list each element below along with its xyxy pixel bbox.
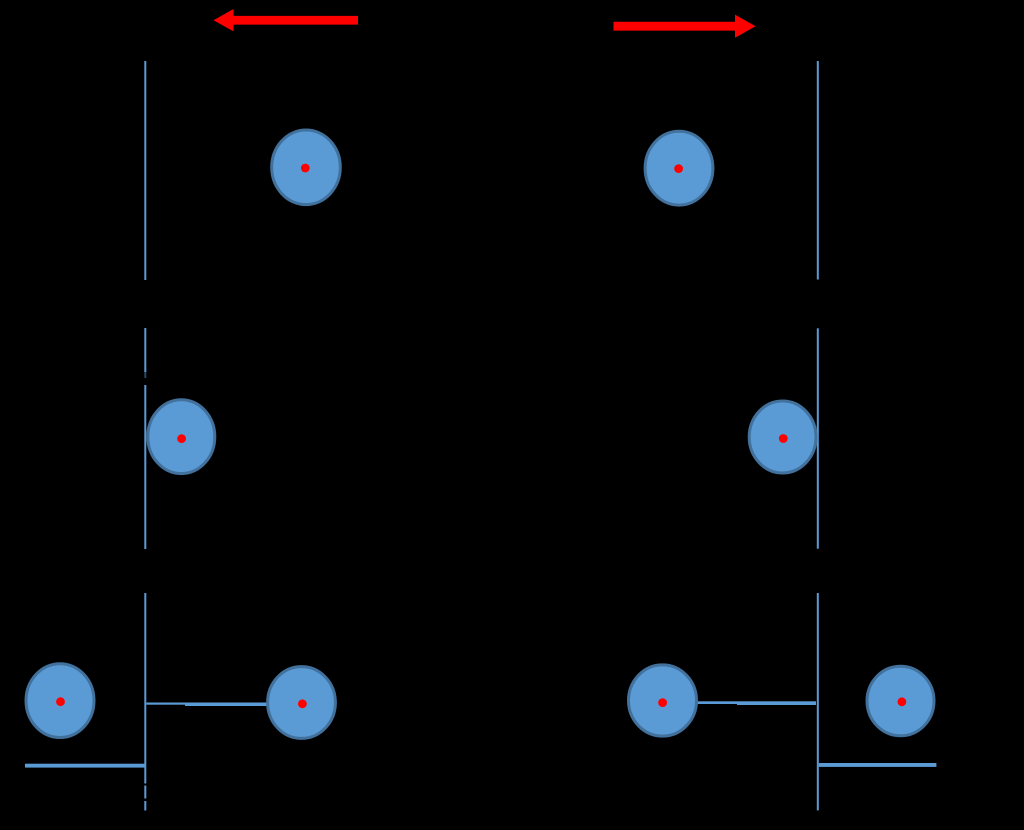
- baseline wire bottom-left: [25, 764, 145, 768]
- wall line left faint overlap: [144, 372, 146, 378]
- wall line left segment 6: [144, 801, 146, 811]
- wall line left segment 3: [144, 385, 146, 549]
- connector wire left thick: [185, 703, 267, 707]
- center dot bottom mid-right: [658, 698, 667, 707]
- ball middle-left: [148, 400, 215, 474]
- velocity arrow left (top-left, pointing left): [214, 9, 359, 31]
- ball middle-right: [749, 401, 816, 473]
- center dot middle-right: [779, 434, 788, 443]
- wall line left segment 2: [144, 328, 146, 372]
- baseline wire bottom-right: [819, 763, 937, 767]
- center dot top-left: [301, 164, 310, 173]
- wall line left segment 1: [144, 61, 146, 280]
- wall line right segment 2: [817, 328, 819, 548]
- ball bottom mid-right: [629, 665, 697, 736]
- wall line right segment 1: [817, 61, 819, 280]
- center dot bottom far-left: [56, 697, 65, 706]
- velocity arrow right (top-right, pointing right): [614, 15, 756, 38]
- ball bottom far-right: [867, 666, 934, 736]
- center dot bottom far-right: [898, 697, 907, 706]
- connector wire left thin: [146, 703, 185, 705]
- center dot top-right: [674, 164, 683, 173]
- center dot middle-left: [177, 434, 186, 443]
- ball bottom mid-left: [268, 667, 336, 739]
- wall line left segment 4: [144, 593, 146, 784]
- connector wire right thin: [698, 701, 738, 704]
- wall line right segment 3: [817, 593, 819, 810]
- ball bottom far-left: [26, 664, 94, 738]
- center dot bottom mid-left: [298, 699, 307, 708]
- connector wire right thick: [737, 701, 816, 705]
- wall line left segment 5: [144, 786, 146, 799]
- ball top-left: [272, 130, 341, 205]
- ball top-right: [645, 131, 713, 205]
